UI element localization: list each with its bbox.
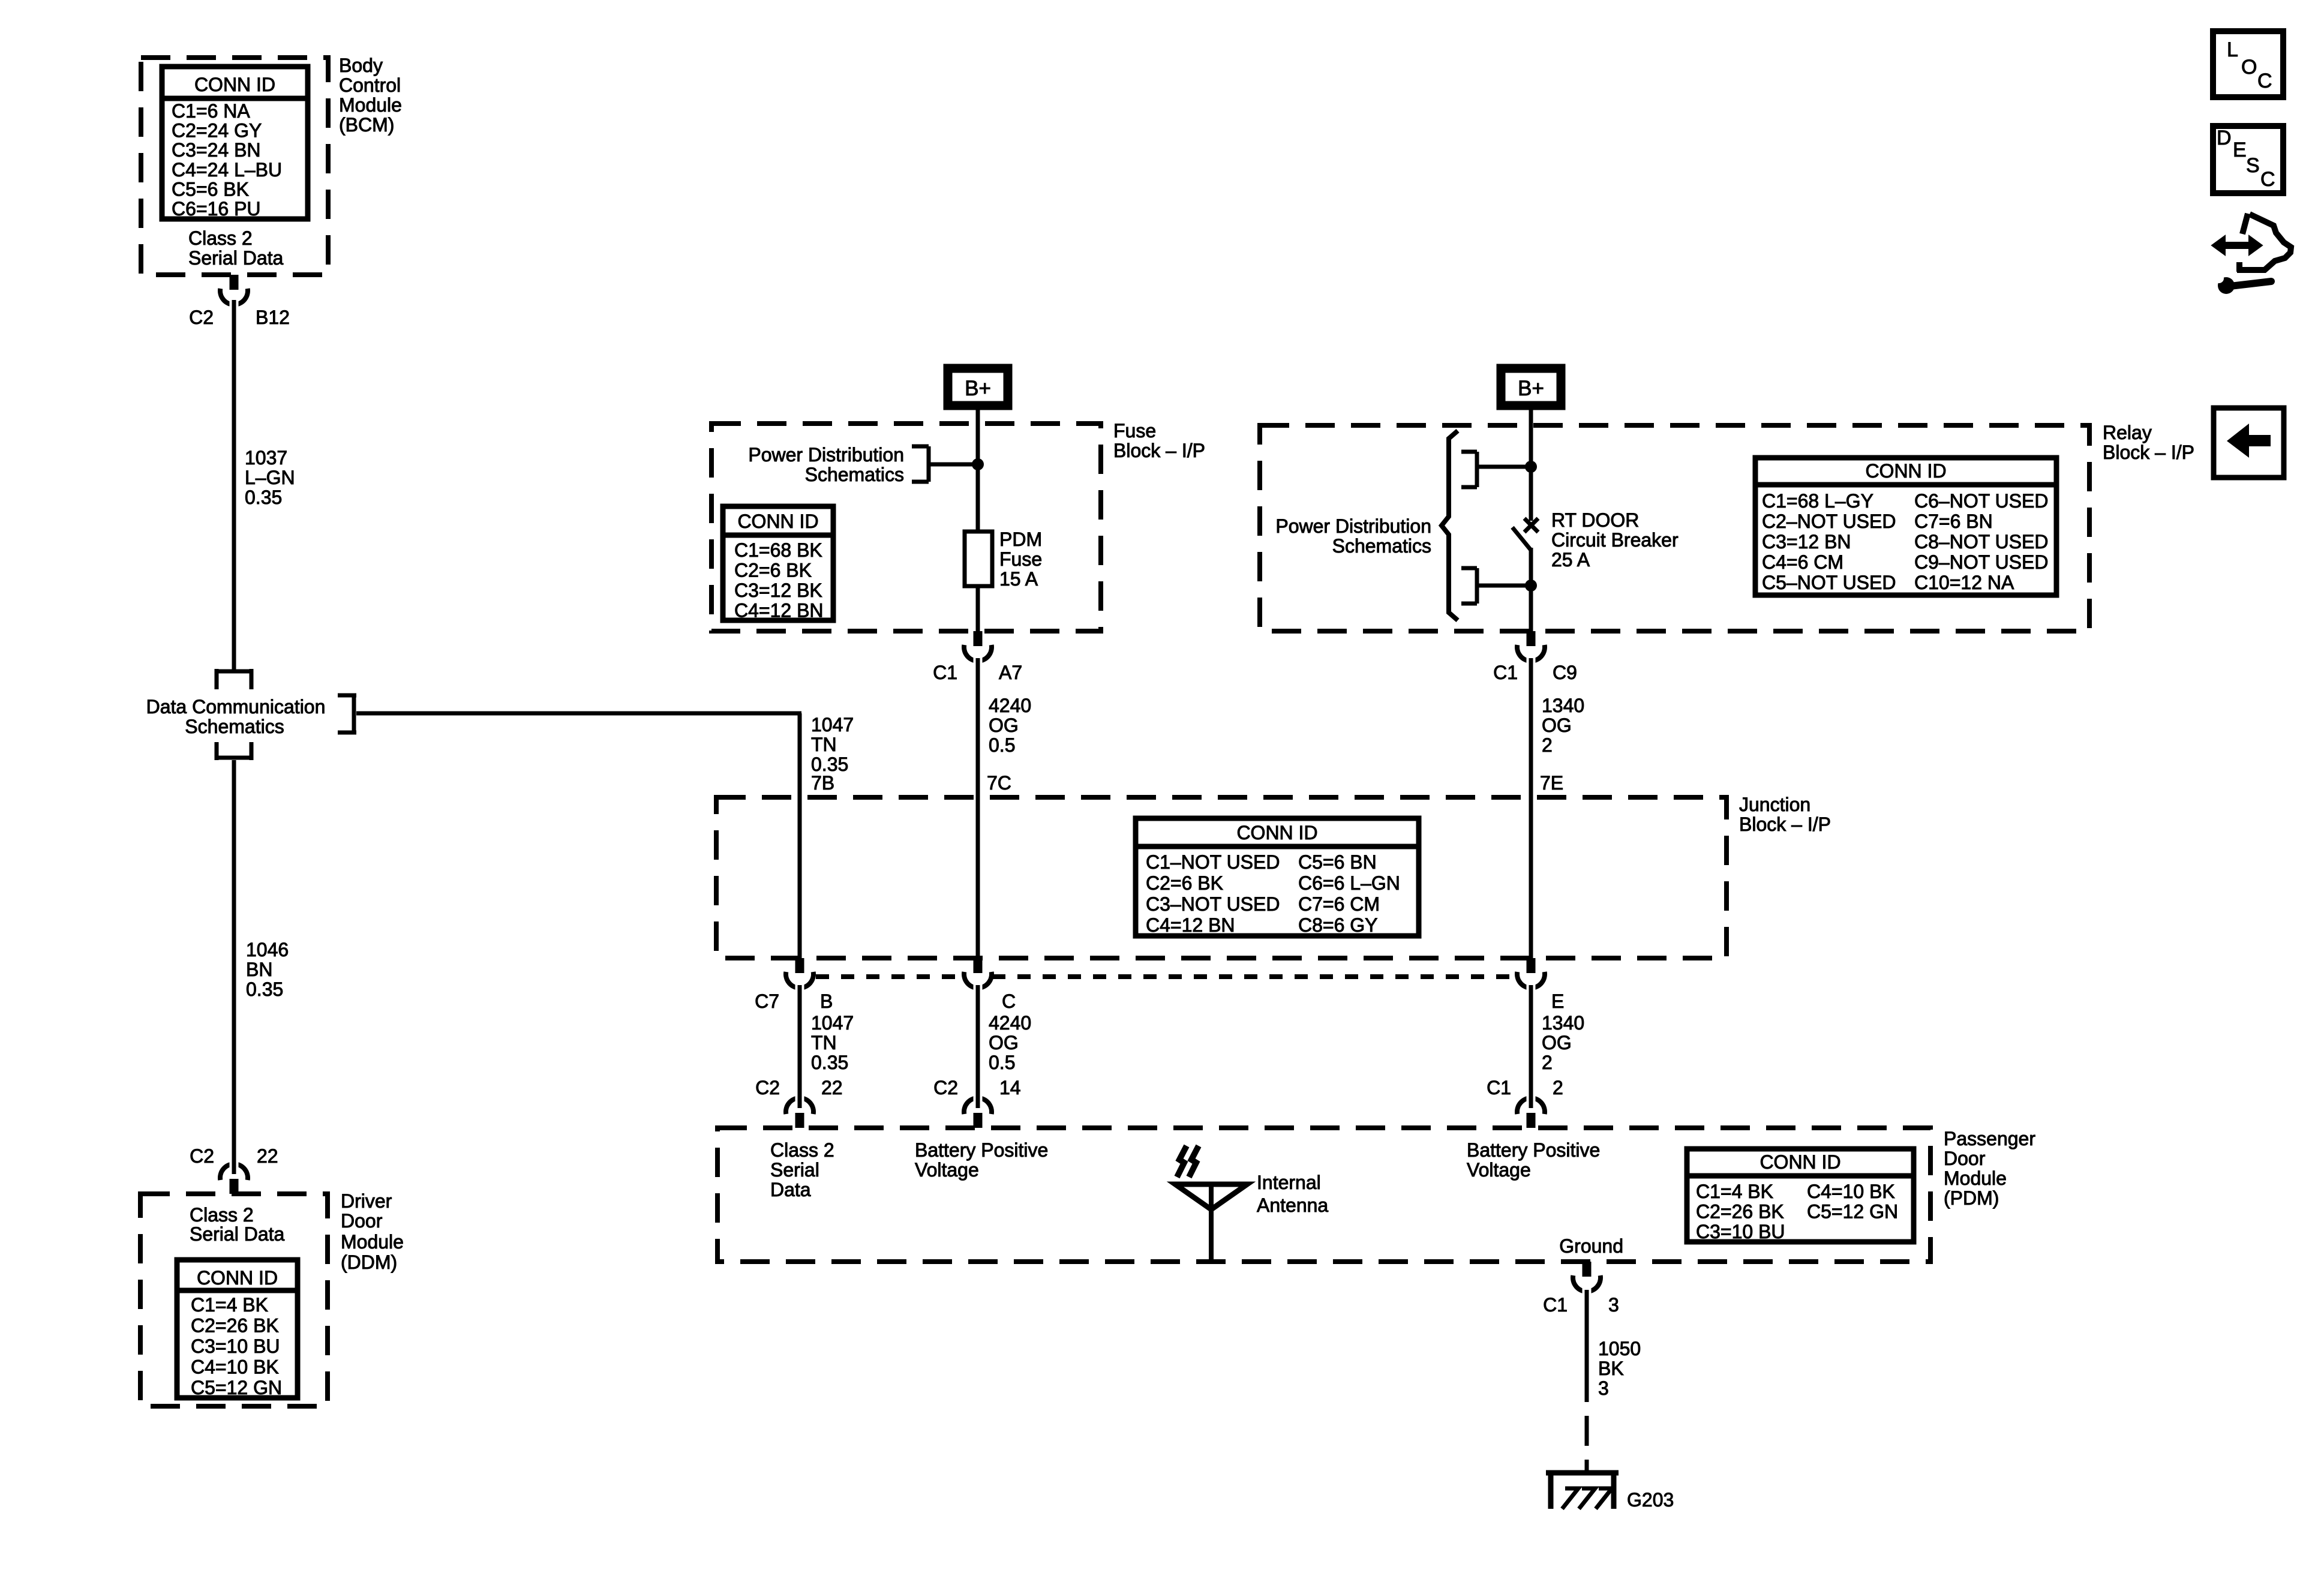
ground symbol G203 — [1546, 1470, 1619, 1509]
svg-text:Relay: Relay — [2103, 422, 2152, 443]
connector C7 at junction block, pin B — [786, 958, 813, 991]
DDM CONN ID table — [177, 1260, 298, 1398]
svg-text:Voltage: Voltage — [915, 1159, 979, 1181]
svg-text:C3=10 BU: C3=10 BU — [1696, 1221, 1785, 1242]
svg-text:C1–NOT USED: C1–NOT USED — [1146, 851, 1280, 873]
module name label: Passenger Door Module (PDM) — [1944, 1128, 2035, 1209]
svg-text:B12: B12 — [256, 307, 290, 328]
off-page reference bracket (fuse block) — [912, 446, 929, 482]
svg-text:PDM: PDM — [999, 529, 1042, 550]
wire: circuit 4240 OG 0.5 to PDM — [976, 985, 980, 1094]
svg-text:1037: 1037 — [245, 447, 287, 469]
module box: Passenger Door Module (PDM), dashed outline — [717, 1128, 1930, 1262]
wire: circuit 1047 TN 0.35 to PDM — [798, 985, 802, 1094]
svg-text:C1: C1 — [1487, 1077, 1511, 1098]
svg-text:0.5: 0.5 — [989, 1052, 1015, 1073]
svg-text:C2: C2 — [933, 1077, 958, 1098]
off-page reference text: Power Distribution Schematics (relay block) — [1275, 515, 1431, 557]
svg-text:Serial: Serial — [770, 1159, 819, 1181]
svg-text:C8=6 GY: C8=6 GY — [1298, 914, 1378, 936]
fuse value label: PDM Fuse 15 A — [999, 529, 1042, 590]
svg-text:Data Communication: Data Communication — [146, 696, 326, 718]
wire label: 1340 OG 2 (lower) — [1542, 1012, 1584, 1073]
connector C2 at DDM, pin 22 — [220, 1158, 248, 1194]
off-page reference: Data Communication Schematics (top bracket) — [215, 669, 253, 689]
wire: circuit 1046 BN 0.35 to Driver Door Module — [232, 760, 236, 1160]
antenna label: Internal Antenna — [1257, 1172, 1328, 1216]
svg-text:22: 22 — [257, 1145, 278, 1167]
svg-text:C6–NOT USED: C6–NOT USED — [1914, 490, 2048, 512]
svg-text:C2=6 BK: C2=6 BK — [1146, 872, 1223, 894]
svg-text:C: C — [2260, 168, 2275, 191]
svg-text:O: O — [2241, 56, 2257, 79]
wire: B+ feed into fuse block — [976, 410, 980, 532]
svg-text:C2: C2 — [755, 1077, 780, 1098]
wire: circuit 1340 OG 2 to PDM — [1529, 985, 1533, 1094]
BCM pin function label: Class 2 Serial Data — [188, 227, 284, 269]
connector C2 at PDM, pin 22 — [786, 1092, 813, 1128]
connector C2 at PDM, pin 14 — [964, 1092, 992, 1128]
pin labels C2 / B12 — [189, 307, 290, 328]
connector at junction block, pin C — [964, 958, 992, 991]
wire: ground circuit 1050 BK 3 — [1585, 1290, 1589, 1402]
svg-text:D: D — [2217, 127, 2232, 149]
svg-text:1047: 1047 — [811, 1012, 854, 1034]
wire: 1047 TN horizontal run from data communication schematics — [356, 712, 801, 716]
svg-text:A7: A7 — [999, 662, 1022, 683]
svg-text:CONN ID: CONN ID — [194, 74, 275, 95]
junction dot lower — [1525, 580, 1537, 592]
svg-text:22: 22 — [821, 1077, 843, 1098]
svg-text:Class 2: Class 2 — [188, 227, 253, 249]
svg-text:CONN ID: CONN ID — [1236, 822, 1317, 843]
wire label: 4240 OG 0.5 — [989, 695, 1031, 756]
svg-text:Class 2: Class 2 — [770, 1139, 834, 1161]
svg-text:2: 2 — [1553, 1077, 1563, 1098]
internal reference bracket lower — [1461, 568, 1477, 604]
wire: tap from power distribution bracket to B+ feed — [929, 463, 978, 467]
svg-text:C1: C1 — [1493, 662, 1518, 683]
wire label: 1050 BK 3 — [1598, 1338, 1641, 1399]
component box: Junction Block - I/P, dashed outline — [716, 797, 1727, 958]
connector C1 at fuse block, pin A7 — [964, 631, 992, 664]
pin labels C2 / 14 at PDM — [933, 1077, 1021, 1098]
svg-text:C4=12 BN: C4=12 BN — [734, 600, 824, 622]
pin labels C1 / C9 — [1493, 662, 1577, 683]
svg-text:C2: C2 — [190, 1145, 214, 1167]
pin labels C1 / 2 at PDM — [1487, 1077, 1563, 1098]
svg-text:C7: C7 — [755, 990, 779, 1012]
component name label: Relay Block - I/P — [2103, 422, 2194, 463]
svg-text:C4=24 L–BU: C4=24 L–BU — [172, 159, 282, 181]
svg-text:25 A: 25 A — [1551, 549, 1590, 571]
wire label: 1340 OG 2 — [1542, 695, 1584, 756]
svg-text:C3–NOT USED: C3–NOT USED — [1146, 893, 1280, 915]
svg-text:BK: BK — [1598, 1358, 1624, 1379]
svg-text:3: 3 — [1598, 1377, 1609, 1399]
svg-text:0.35: 0.35 — [811, 1052, 848, 1073]
svg-text:Body: Body — [339, 55, 383, 76]
svg-text:Power Distribution: Power Distribution — [748, 444, 904, 466]
wire: lower tap from breaker output — [1477, 584, 1531, 588]
breaker label: RT DOOR Circuit Breaker 25 A — [1551, 509, 1679, 571]
svg-text:0.35: 0.35 — [246, 978, 283, 1000]
PDM pin function label: Battery Positive Voltage (from breaker) — [1467, 1139, 1600, 1181]
svg-text:Internal: Internal — [1257, 1172, 1321, 1193]
svg-text:2: 2 — [1542, 1052, 1553, 1073]
circuit breaker CB: RT DOOR 25 A (X mark) — [1524, 518, 1538, 532]
svg-text:Antenna: Antenna — [1257, 1194, 1328, 1216]
wire label: 1047 TN 0.35 (lower) — [811, 1012, 854, 1073]
svg-text:C4=12 BN: C4=12 BN — [1146, 914, 1235, 936]
svg-text:C1: C1 — [933, 662, 957, 683]
svg-text:C1=68 BK: C1=68 BK — [734, 539, 822, 561]
icon: diagnostic arrow-and-wrench — [2212, 214, 2291, 294]
off-page reference: bottom bracket — [215, 742, 253, 760]
svg-text:RT DOOR: RT DOOR — [1551, 509, 1639, 531]
wire: fuse output to connector C1 — [976, 586, 980, 631]
svg-text:BN: BN — [246, 959, 272, 980]
svg-text:OG: OG — [1542, 1032, 1572, 1053]
junction block CONN ID table — [1136, 818, 1419, 936]
junction dot on B+ feed — [972, 458, 984, 470]
svg-text:TN: TN — [811, 734, 837, 755]
component box: Relay Block - I/P, dashed outline — [1260, 425, 2089, 631]
svg-text:Driver: Driver — [341, 1190, 392, 1212]
svg-text:C6=6 L–GN: C6=6 L–GN — [1298, 872, 1400, 894]
svg-text:C4=6 CM: C4=6 CM — [1762, 551, 1843, 573]
svg-text:C8–NOT USED: C8–NOT USED — [1914, 531, 2048, 553]
fuse block CONN ID table — [723, 506, 833, 622]
svg-text:B: B — [820, 990, 833, 1012]
svg-text:C4=10 BK: C4=10 BK — [1807, 1181, 1895, 1202]
wire id label: 7B — [811, 772, 834, 794]
svg-text:C3=24 BN: C3=24 BN — [172, 139, 261, 161]
svg-text:C5=6 BK: C5=6 BK — [172, 178, 249, 200]
svg-text:4240: 4240 — [989, 1012, 1031, 1034]
wire label: 1047 TN 0.35 — [811, 714, 854, 775]
power symbol B+ (battery positive) feeding PDM fuse — [948, 368, 1008, 406]
svg-text:14: 14 — [999, 1077, 1021, 1098]
svg-text:S: S — [2246, 154, 2260, 177]
svg-text:C9: C9 — [1553, 662, 1577, 683]
off-page reference text: Data Communication Schematics — [146, 696, 326, 737]
wire: B+ feed into relay block to circuit breaker — [1529, 410, 1533, 521]
wire label: 1037 L-GN 0.35 — [245, 447, 295, 508]
svg-text:C1=68 L–GY: C1=68 L–GY — [1762, 490, 1873, 512]
svg-text:Block – I/P: Block – I/P — [1113, 440, 1205, 461]
svg-text:Door: Door — [341, 1210, 383, 1232]
svg-text:CONN ID: CONN ID — [737, 511, 818, 532]
svg-text:Schematics: Schematics — [1332, 535, 1431, 557]
circuit breaker blade — [1512, 527, 1531, 550]
wire id label: 7E — [1540, 772, 1563, 794]
wire: Class 2 serial data, circuit 1037 L-GN 0.35 — [232, 300, 236, 670]
component name label: Junction Block - I/P — [1739, 794, 1831, 835]
svg-text:C2=6 BK: C2=6 BK — [734, 560, 812, 581]
svg-text:Schematics: Schematics — [185, 716, 284, 737]
svg-text:Door: Door — [1944, 1148, 1986, 1169]
svg-text:C1=4 BK: C1=4 BK — [191, 1294, 268, 1316]
wire: circuit 1340 OG 2 from relay block to junction block — [1529, 658, 1533, 958]
svg-text:Circuit Breaker: Circuit Breaker — [1551, 529, 1679, 551]
icon: DESC reference box — [2213, 126, 2283, 193]
svg-text:C2=24 GY: C2=24 GY — [172, 120, 262, 142]
wire: breaker output — [1529, 548, 1533, 631]
svg-text:C3=12 BK: C3=12 BK — [734, 580, 822, 601]
svg-text:CONN ID: CONN ID — [1759, 1151, 1840, 1173]
PDM CONN ID table — [1687, 1149, 1914, 1242]
svg-text:0.5: 0.5 — [989, 734, 1015, 756]
svg-text:CONN ID: CONN ID — [1865, 460, 1946, 482]
junction block lower connector strip (dotted) — [816, 974, 1515, 979]
svg-text:3: 3 — [1608, 1294, 1619, 1316]
connector C1 at relay block, pin C9 — [1517, 631, 1545, 664]
off-page reference: right bracket toward junction block — [338, 695, 356, 733]
svg-text:Serial Data: Serial Data — [188, 247, 284, 269]
svg-text:Module: Module — [1944, 1167, 2007, 1189]
relay block CONN ID table — [1755, 458, 2056, 595]
PDM pin function label: Class 2 Serial Data — [770, 1139, 834, 1200]
svg-text:C5–NOT USED: C5–NOT USED — [1762, 572, 1896, 593]
svg-text:Voltage: Voltage — [1467, 1159, 1531, 1181]
module box: Body Control Module (BCM), dashed outline — [141, 58, 328, 275]
svg-text:C1=6 NA: C1=6 NA — [172, 100, 250, 122]
fuse F: PDM Fuse 15 A — [965, 532, 992, 586]
module name label: Body Control Module (BCM) — [339, 55, 402, 136]
svg-text:7C: 7C — [987, 772, 1011, 794]
svg-text:C5=12 GN: C5=12 GN — [191, 1377, 282, 1398]
svg-text:C2=26 BK: C2=26 BK — [1696, 1201, 1784, 1223]
svg-text:1050: 1050 — [1598, 1338, 1641, 1359]
svg-text:Class 2: Class 2 — [190, 1204, 254, 1226]
svg-text:Fuse: Fuse — [999, 548, 1042, 570]
svg-text:C2–NOT USED: C2–NOT USED — [1762, 511, 1896, 532]
svg-text:Ground: Ground — [1559, 1235, 1623, 1257]
module name label: Driver Door Module (DDM) — [341, 1190, 404, 1273]
svg-text:C1: C1 — [1543, 1294, 1568, 1316]
svg-text:7B: 7B — [811, 772, 834, 794]
svg-text:OG: OG — [1542, 715, 1572, 736]
svg-text:Schematics: Schematics — [805, 464, 904, 485]
svg-text:E: E — [1551, 990, 1564, 1012]
svg-text:C7=6 CM: C7=6 CM — [1298, 893, 1380, 915]
svg-text:Module: Module — [341, 1231, 404, 1253]
module box: Driver Door Module (DDM), dashed outline — [140, 1194, 328, 1406]
svg-text:C7=6 BN: C7=6 BN — [1914, 511, 1993, 532]
svg-text:TN: TN — [811, 1032, 837, 1053]
connector C1 at junction block, pin E — [1517, 958, 1545, 991]
pin labels C7 / B — [755, 990, 833, 1012]
pin labels C1 / A7 — [933, 662, 1022, 683]
wire label: 4240 OG 0.5 (lower) — [989, 1012, 1031, 1073]
off-page reference text: Power Distribution Schematics (fuse block) — [748, 444, 904, 485]
svg-text:CONN ID: CONN ID — [197, 1267, 278, 1289]
icon: back-arrow box — [2214, 408, 2284, 478]
svg-text:C2: C2 — [189, 307, 214, 328]
svg-text:Battery Positive: Battery Positive — [1467, 1139, 1600, 1161]
svg-text:Control: Control — [339, 74, 401, 96]
svg-text:B+: B+ — [1518, 377, 1544, 400]
svg-text:L: L — [2227, 38, 2238, 61]
junction dot upper — [1525, 461, 1537, 473]
svg-text:E: E — [2233, 139, 2247, 161]
svg-text:G203: G203 — [1627, 1489, 1674, 1511]
svg-text:OG: OG — [989, 1032, 1019, 1053]
svg-text:1047: 1047 — [811, 714, 854, 736]
PDM pin function label: Battery Positive Voltage (from fuse) — [915, 1139, 1048, 1181]
svg-text:C6=16 PU: C6=16 PU — [172, 198, 261, 220]
svg-text:C3=10 BU: C3=10 BU — [191, 1335, 280, 1357]
svg-text:Battery Positive: Battery Positive — [915, 1139, 1048, 1161]
svg-text:C2=26 BK: C2=26 BK — [191, 1315, 279, 1337]
power symbol B+ (battery positive) feeding RT DOOR circuit breaker — [1501, 368, 1561, 406]
svg-text:1340: 1340 — [1542, 695, 1584, 716]
wire: upper tap to breaker feed — [1477, 465, 1531, 469]
svg-text:C: C — [1002, 990, 1016, 1012]
svg-text:1046: 1046 — [246, 939, 289, 960]
wire: circuit 4240 OG 0.5 from fuse block to junction block — [976, 658, 980, 958]
pin labels C1 / 3 — [1543, 1294, 1619, 1316]
svg-text:Passenger: Passenger — [1944, 1128, 2035, 1149]
svg-text:B+: B+ — [965, 377, 991, 400]
svg-text:(PDM): (PDM) — [1944, 1187, 1999, 1209]
icon: LOC reference box — [2213, 31, 2283, 97]
component box: Fuse Block - I/P, dashed outline — [711, 424, 1101, 631]
svg-text:OG: OG — [989, 715, 1019, 736]
svg-text:Block – I/P: Block – I/P — [2103, 442, 2194, 463]
svg-text:C1=4 BK: C1=4 BK — [1696, 1181, 1773, 1202]
svg-text:C5=12 GN: C5=12 GN — [1807, 1201, 1898, 1223]
svg-text:C4=10 BK: C4=10 BK — [191, 1356, 279, 1378]
svg-text:2: 2 — [1542, 734, 1553, 756]
svg-text:Junction: Junction — [1739, 794, 1810, 815]
internal reference bracket upper — [1461, 452, 1477, 487]
svg-text:Data: Data — [770, 1179, 811, 1200]
svg-text:4240: 4240 — [989, 695, 1031, 716]
connector C2 at BCM, pin B12 — [220, 275, 248, 308]
svg-text:1340: 1340 — [1542, 1012, 1584, 1034]
wire label: 1046 BN 0.35 — [246, 939, 289, 1000]
connector C1 at PDM, pin 2 — [1517, 1092, 1545, 1128]
wire id label: 7C — [987, 772, 1011, 794]
antenna symbol: internal antenna — [1175, 1146, 1247, 1263]
svg-text:7E: 7E — [1540, 772, 1563, 794]
svg-text:Serial Data: Serial Data — [190, 1223, 285, 1245]
svg-text:0.35: 0.35 — [245, 487, 282, 508]
svg-text:C10=12 NA: C10=12 NA — [1914, 572, 2014, 593]
svg-text:Fuse: Fuse — [1113, 420, 1156, 442]
pin labels C2 / 22 at DDM — [190, 1145, 278, 1167]
wire: 1047 TN vertical drop to junction block — [798, 713, 802, 958]
svg-text:(BCM): (BCM) — [339, 114, 394, 136]
DDM pin function label: Class 2 Serial Data — [190, 1204, 285, 1245]
svg-text:Block – I/P: Block – I/P — [1739, 813, 1831, 835]
svg-text:C3=12 BN: C3=12 BN — [1762, 531, 1851, 553]
component name label: Fuse Block - I/P — [1113, 420, 1205, 461]
svg-text:L–GN: L–GN — [245, 467, 295, 488]
svg-text:(DDM): (DDM) — [341, 1251, 397, 1273]
svg-text:C5=6 BN: C5=6 BN — [1298, 851, 1377, 873]
connector C1 at PDM ground, pin 3 — [1573, 1262, 1601, 1295]
svg-text:15 A: 15 A — [999, 568, 1038, 590]
pin labels C2 / 22 at PDM — [755, 1077, 843, 1098]
svg-text:Module: Module — [339, 94, 402, 116]
BCM CONN ID table — [162, 67, 308, 220]
svg-text:Power Distribution: Power Distribution — [1275, 515, 1431, 537]
brace for power distribution schematics reference — [1442, 431, 1458, 620]
wire: dashed continuation to ground G203 — [1585, 1416, 1589, 1475]
svg-text:C: C — [2257, 70, 2272, 92]
svg-text:C9–NOT USED: C9–NOT USED — [1914, 551, 2048, 573]
